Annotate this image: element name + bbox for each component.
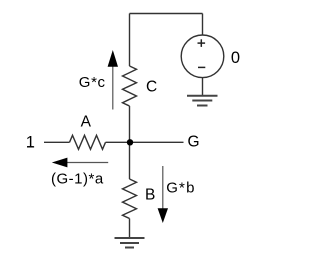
current arrow left ((G-1)*a) xyxy=(52,158,108,168)
wire source bottom to ground xyxy=(202,77,204,95)
svg-text:G: G xyxy=(187,133,199,150)
wire vertical from top wire to resistor C top xyxy=(129,14,131,67)
wire from B bottom to ground xyxy=(129,219,131,239)
resistor A xyxy=(70,135,106,149)
svg-text:1: 1 xyxy=(26,133,35,151)
resistor C xyxy=(123,66,137,106)
wire top horizontal from node above C to source xyxy=(130,13,203,15)
current arrow up (G*c) xyxy=(108,50,118,110)
wire vertical into voltage source top xyxy=(202,14,204,36)
wire left lead to resistor A xyxy=(44,141,70,143)
resistor B xyxy=(123,179,137,219)
ground (top right, source) xyxy=(187,96,218,106)
svg-text:B: B xyxy=(145,187,155,204)
wire from C bottom through node to resistor B top xyxy=(129,106,131,179)
ground (bottom) xyxy=(115,238,145,248)
svg-text:C: C xyxy=(146,78,157,95)
svg-text:A: A xyxy=(81,113,92,130)
svg-text:0: 0 xyxy=(231,49,240,67)
node junction dot xyxy=(127,139,133,145)
current arrow down (G*b) xyxy=(158,166,168,223)
wire from A to node to G xyxy=(106,141,184,143)
plus sign inside source xyxy=(198,39,206,47)
svg-text:G*b: G*b xyxy=(166,179,195,196)
voltage source V0 circle xyxy=(181,35,224,78)
minus sign inside source xyxy=(198,66,205,68)
svg-text:(G-1)*a: (G-1)*a xyxy=(51,171,104,188)
svg-text:G*c: G*c xyxy=(79,74,106,91)
